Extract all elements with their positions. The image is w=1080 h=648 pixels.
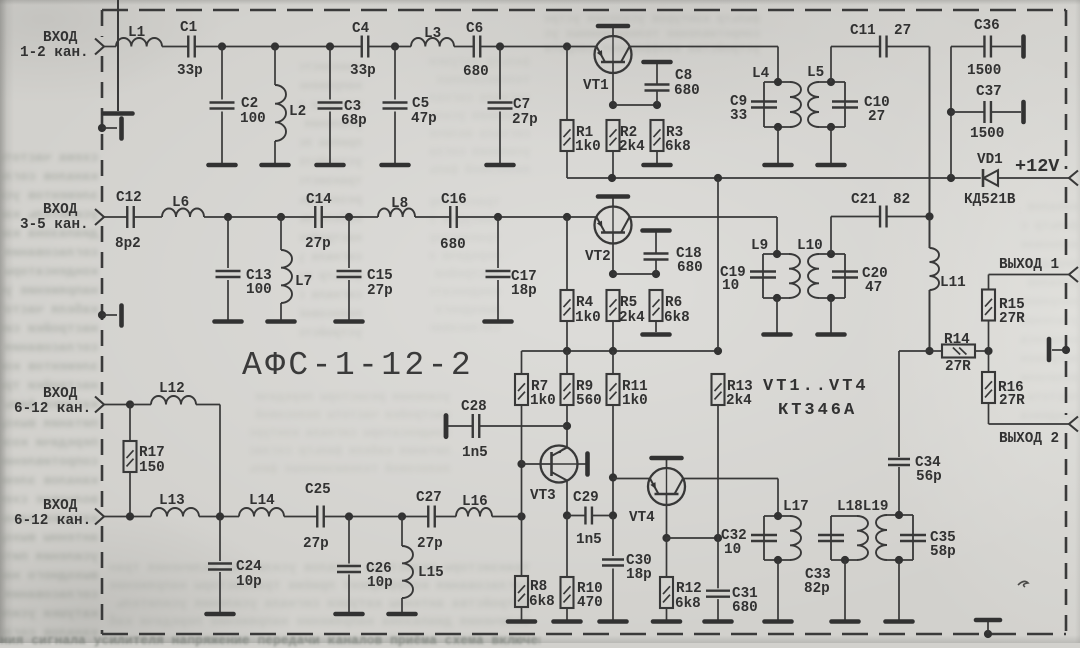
wire C37: [951, 111, 984, 113]
svg-text:КТ346А: КТ346А: [778, 401, 857, 420]
node L18 bottom: [841, 556, 849, 564]
capacitor C30: [602, 558, 624, 560]
wire: [199, 516, 239, 518]
wire R7 lower: [521, 405, 523, 464]
wire C24 upper: [219, 517, 221, 562]
capacitor C28: [472, 414, 474, 438]
node C2 top: [218, 42, 226, 50]
capacitor C34: [888, 458, 910, 460]
ground C30: [600, 619, 627, 624]
wire C28 right: [479, 425, 567, 427]
node VT4 base: [662, 534, 670, 542]
svg-text:10: 10: [722, 278, 739, 294]
capacitor C27: [427, 506, 429, 528]
svg-text:L15: L15: [418, 565, 444, 581]
inductor L6: [162, 209, 204, 218]
wire to L4: [777, 47, 779, 83]
wire bus1 C6-VT1: [480, 46, 596, 48]
wire R6 lower: [655, 321, 657, 332]
resistor R6: [650, 290, 663, 321]
svg-text:680: 680: [732, 600, 758, 616]
svg-text:10p: 10p: [236, 574, 262, 590]
resistor R3: [651, 120, 664, 151]
ground: [832, 619, 859, 624]
svg-text:27R: 27R: [999, 311, 1025, 327]
svg-text:L12: L12: [159, 381, 185, 397]
svg-text:L7: L7: [295, 274, 312, 290]
node VT2 base: [609, 270, 617, 278]
wire: [831, 46, 880, 48]
wire +12V branch vertical: [717, 178, 719, 351]
node L19 top: [895, 511, 903, 519]
node R14 left: [925, 347, 933, 355]
wire C13 upper: [227, 217, 229, 268]
transistor VT2: [595, 207, 632, 244]
inductor L16: [456, 508, 492, 517]
wire: [831, 216, 880, 218]
wire R4 lower: [566, 321, 568, 351]
resistor R9: [561, 374, 574, 405]
wire R8 upper: [521, 517, 523, 577]
ground R6: [643, 332, 670, 337]
inductor L19 tank: [887, 514, 913, 516]
node C15 top: [345, 213, 353, 221]
transistor VT4: [648, 468, 685, 505]
svg-text:56p: 56p: [916, 469, 942, 485]
node L9 top: [773, 250, 781, 258]
transistor VT1: [595, 36, 632, 73]
svg-text:82p: 82p: [804, 581, 830, 597]
wire combiner vertical upper: [929, 47, 931, 217]
wire R7 upper: [521, 351, 523, 374]
wire C34 upper: [898, 351, 900, 457]
capacitor C33: [818, 534, 844, 536]
wire: [104, 46, 116, 48]
shield node bottom: [984, 630, 992, 638]
wire R10 lower: [566, 608, 568, 620]
wire L17 ground: [777, 560, 779, 620]
capacitor C26: [337, 565, 361, 567]
resistor R15: [982, 290, 995, 321]
node R2 on rail: [608, 174, 616, 182]
dashed screen border left: [101, 10, 104, 37]
wire C17 upper: [497, 217, 499, 268]
wire C30 lower: [612, 569, 614, 621]
node R1/emitter: [563, 42, 571, 50]
wire C26 lower: [348, 575, 350, 613]
wire R12 lower: [666, 608, 668, 620]
terminal output 1: [1069, 267, 1078, 282]
svg-text:L18L19: L18L19: [837, 499, 888, 515]
ground: [207, 612, 234, 617]
svg-text:R6: R6: [665, 295, 682, 311]
inductor L8: [378, 209, 415, 218]
node R13 rail: [714, 347, 722, 355]
svg-text:VT1: VT1: [583, 78, 609, 94]
svg-text:R12: R12: [676, 581, 702, 597]
node C17 top: [494, 213, 502, 221]
wire C7 upper: [499, 47, 501, 100]
wire C15 upper: [348, 217, 350, 268]
wire L7 lower: [280, 303, 282, 320]
wire: [435, 516, 456, 518]
ground: [268, 319, 295, 324]
wire R12 upper: [666, 538, 668, 577]
node combiner C21: [925, 212, 933, 220]
wire L19 ground: [898, 560, 900, 620]
node C26: [345, 512, 353, 520]
node L17 top: [774, 512, 782, 520]
ground C8 top: [644, 60, 671, 65]
wire: [368, 46, 411, 48]
svg-text:680: 680: [674, 83, 700, 99]
node C3 top: [326, 42, 334, 50]
node VT3 base lower: [517, 512, 525, 520]
svg-text:VT1..VT4: VT1..VT4: [763, 377, 869, 396]
capacitor C32: [751, 534, 777, 536]
resistor R5: [607, 290, 620, 321]
wire C13 lower: [227, 280, 229, 320]
svg-text:680: 680: [677, 260, 703, 276]
ground: [818, 332, 845, 337]
svg-text:68p: 68p: [341, 113, 367, 129]
wire C3 lower: [329, 112, 331, 164]
artifact ground bar: [104, 111, 133, 116]
inductor L2: [275, 85, 286, 141]
wire bus3: [324, 516, 428, 518]
svg-text:6k8: 6k8: [664, 310, 690, 326]
svg-text:C5: C5: [412, 96, 429, 112]
node L15: [398, 512, 406, 520]
wire to L9: [776, 217, 778, 254]
wire: [987, 622, 989, 634]
capacitor C6: [473, 36, 475, 58]
svg-text:R5: R5: [620, 295, 637, 311]
svg-text:6k8: 6k8: [675, 596, 701, 612]
svg-text:R17: R17: [139, 445, 165, 461]
capacitor C4: [361, 36, 363, 58]
ground: [209, 163, 236, 168]
svg-text:680: 680: [440, 237, 466, 253]
ground: [215, 319, 242, 324]
wire: [134, 216, 162, 218]
ground bar C37: [1021, 102, 1026, 122]
svg-text:1k0: 1k0: [530, 393, 556, 409]
wire C2 lower: [221, 112, 223, 164]
svg-text:ВХОД: ВХОД: [43, 202, 78, 218]
resistor R7: [515, 374, 528, 405]
svg-text:27p: 27p: [512, 112, 538, 128]
shield ground bar 3: [1047, 339, 1052, 360]
node R15/R16: [984, 347, 992, 355]
svg-text:ВЫХОД 1: ВЫХОД 1: [999, 257, 1059, 273]
svg-text:680: 680: [463, 64, 489, 80]
svg-text:47p: 47p: [411, 111, 437, 127]
svg-text:L6: L6: [172, 195, 189, 211]
svg-text:27R: 27R: [999, 393, 1025, 409]
wire C2 upper: [221, 47, 223, 100]
wire: [284, 516, 317, 518]
wire: [492, 516, 522, 518]
node L10 top: [827, 250, 835, 258]
ground: [765, 163, 792, 168]
node C36 branch on rail: [947, 174, 955, 182]
wire R9 lower: [566, 405, 568, 448]
svg-text:150: 150: [139, 460, 165, 476]
inductor L12: [151, 396, 196, 405]
wire R15 upper: [988, 275, 990, 290]
node L5 top: [827, 78, 835, 86]
wire to L17: [777, 479, 779, 517]
svg-text:33p: 33p: [350, 63, 376, 79]
shield ground bar 2: [119, 306, 124, 326]
svg-text:C7: C7: [513, 97, 530, 113]
capacitor C24: [208, 562, 232, 564]
ground: [487, 163, 514, 168]
shield ground bar 1: [119, 119, 124, 139]
node VT3 collector: [563, 511, 571, 519]
terminal output 2: [1069, 417, 1078, 432]
wire R15 lower: [988, 321, 990, 352]
inductor L5 tank: [819, 81, 845, 83]
svg-text:C36: C36: [974, 18, 1000, 34]
svg-text:33p: 33p: [177, 63, 203, 79]
input terminal 6-12 a: [95, 397, 104, 413]
capacitor C16: [449, 206, 451, 228]
wire combiner: [929, 217, 931, 249]
svg-text:2k4: 2k4: [619, 310, 645, 326]
svg-text:C1: C1: [180, 20, 197, 36]
svg-text:27: 27: [868, 109, 885, 125]
wire combiner lower: [929, 290, 931, 351]
wire L5 top: [830, 47, 832, 83]
wire R11 upper: [612, 351, 614, 374]
wire: [104, 216, 127, 218]
svg-text:C8: C8: [675, 68, 692, 84]
wire C31 lower: [717, 599, 719, 620]
capacitor C35: [900, 534, 926, 536]
svg-text:L5: L5: [807, 65, 824, 81]
wire: [322, 216, 378, 218]
wire C29 right: [592, 515, 613, 517]
wire VT3 base vertical: [521, 464, 523, 517]
svg-text:3-5 кан.: 3-5 кан.: [20, 217, 89, 233]
ground R8: [508, 619, 535, 624]
svg-text:27R: 27R: [945, 359, 971, 375]
svg-text:L9: L9: [751, 238, 768, 254]
svg-text:1-2 кан.: 1-2 кан.: [20, 45, 89, 61]
capacitor C21: [879, 206, 881, 228]
wire R1 lower: [566, 151, 568, 178]
inductor L11: [930, 248, 940, 290]
shield node row1: [98, 124, 106, 132]
wire R13 lower: [717, 405, 719, 538]
svg-text:L4: L4: [752, 66, 770, 82]
svg-text:L14: L14: [249, 493, 275, 509]
ground: [389, 612, 416, 617]
svg-text:6-12 кан.: 6-12 кан.: [14, 401, 91, 417]
shield node right: [1062, 346, 1070, 354]
inductor L9 tank: [763, 253, 789, 255]
capacitor C17: [486, 270, 511, 272]
wire output 2: [989, 423, 1070, 425]
node L17 bottom: [774, 556, 782, 564]
capacitor C5: [383, 101, 408, 103]
wire C18 lower: [655, 260, 657, 274]
capacitor C20: [832, 270, 858, 272]
svg-text:L17: L17: [783, 499, 809, 515]
svg-text:82: 82: [893, 192, 910, 208]
inductor L1: [116, 38, 162, 47]
wire C29 left: [567, 515, 585, 517]
resistor R13: [712, 374, 725, 405]
wire C8 lower: [656, 91, 658, 106]
svg-text:27p: 27p: [367, 283, 393, 299]
svg-text:C14: C14: [306, 192, 332, 208]
svg-text:C2: C2: [241, 96, 258, 112]
svg-text:C25: C25: [305, 482, 331, 498]
resistor R16: [982, 372, 995, 403]
wire L10 ground: [830, 298, 832, 333]
node L19 bottom: [895, 556, 903, 564]
svg-text:C29: C29: [573, 490, 599, 506]
node L4 bottom: [774, 123, 782, 131]
wire L5 ground: [830, 127, 832, 163]
wire base-C8: [613, 104, 657, 106]
wire output 1: [989, 274, 1070, 276]
wire L12 down: [219, 405, 221, 517]
node C24: [216, 512, 224, 520]
wire: [104, 516, 151, 518]
svg-text:ВЫХОД 2: ВЫХОД 2: [999, 431, 1059, 447]
capacitor C13: [216, 270, 241, 272]
svg-text:C21: C21: [851, 192, 877, 208]
svg-text:47: 47: [865, 280, 882, 296]
wire C24 lower: [219, 572, 221, 612]
node rail to R13 branch: [714, 174, 722, 182]
node C29/C30: [609, 511, 617, 519]
svg-text:1k0: 1k0: [575, 139, 601, 155]
dashed screen border right: [1065, 10, 1068, 169]
svg-text:27p: 27p: [303, 536, 329, 552]
node C5 top: [391, 42, 399, 50]
wire C15 lower: [348, 280, 350, 320]
resistor R8: [515, 576, 528, 607]
wire +12V rail 2: [522, 350, 719, 352]
ground R10: [554, 619, 581, 624]
wire C17 lower: [497, 280, 499, 320]
wire VT4 emitter: [613, 478, 650, 480]
wire R3 lower: [656, 151, 658, 163]
wire VT3 base lead: [522, 463, 552, 465]
wire: [991, 46, 1021, 48]
svg-text:C15: C15: [367, 268, 393, 284]
node C13 top: [224, 213, 232, 221]
svg-text:C6: C6: [466, 21, 483, 37]
capacitor C25: [316, 506, 318, 528]
ground C31: [705, 619, 732, 624]
wire R17 lower: [129, 472, 131, 517]
node VT4 emitter: [609, 473, 617, 481]
svg-text:560: 560: [576, 393, 602, 409]
node C18/R6: [652, 270, 660, 278]
svg-text:1k0: 1k0: [575, 310, 601, 326]
wire C3 upper: [329, 47, 331, 100]
wire: [102, 314, 117, 316]
capacitor C19: [750, 270, 776, 272]
svg-text:C28: C28: [461, 399, 487, 415]
ground: [336, 319, 363, 324]
wire: [975, 350, 989, 352]
wire R16 lower: [988, 403, 990, 424]
wire: [991, 111, 1021, 113]
capacitor C1: [187, 36, 189, 58]
svg-text:АФС-1-12-2: АФС-1-12-2: [242, 347, 474, 384]
capacitor C37: [983, 101, 985, 123]
inductor L3: [411, 38, 454, 47]
svg-text:ВХОД: ВХОД: [43, 30, 78, 46]
svg-text:L11: L11: [940, 275, 966, 291]
resistor R10: [561, 577, 574, 608]
inductor L14: [239, 508, 284, 517]
svg-text:6k8: 6k8: [529, 594, 555, 610]
node R4/R9 rail: [563, 347, 571, 355]
wire R1 upper: [566, 47, 568, 121]
resistor R12: [660, 577, 673, 608]
capacitor C31: [706, 590, 730, 592]
capacitor C14: [314, 206, 316, 228]
shield ground bar 4: [976, 618, 1000, 623]
svg-text:100: 100: [246, 282, 272, 298]
wire R16 upper: [988, 351, 990, 372]
wire VT4 collector: [683, 478, 778, 480]
svg-text:2k4: 2k4: [726, 393, 752, 409]
svg-text:VD1: VD1: [977, 152, 1003, 168]
inductor L4 tank: [764, 81, 790, 83]
inductor L18 tank: [831, 515, 857, 517]
svg-text:VT2: VT2: [585, 249, 611, 265]
svg-text:VT3: VT3: [530, 488, 556, 504]
svg-text:18p: 18p: [626, 567, 652, 583]
node R5/R11 rail: [609, 347, 617, 355]
ground bar C28b: [444, 416, 449, 437]
wire bus2 C16-VT2: [457, 216, 597, 218]
wire: [1052, 349, 1066, 351]
node C7 top: [496, 42, 504, 50]
capacitor C8: [645, 83, 670, 85]
capacitor C12: [126, 206, 128, 228]
svg-text:L2: L2: [289, 104, 306, 120]
svg-text:2k4: 2k4: [619, 139, 645, 155]
resistor R2: [607, 120, 620, 151]
capacitor C18: [644, 252, 669, 254]
svg-text:1k0: 1k0: [622, 393, 648, 409]
wire base-C18: [613, 273, 656, 275]
input terminal 6-12 b: [95, 509, 104, 525]
svg-text:L16: L16: [462, 494, 488, 510]
resistor R1: [561, 120, 574, 151]
wire VT1 collector: [630, 46, 779, 48]
wire R17 upper: [129, 405, 131, 442]
wire C31 upper: [717, 538, 719, 588]
ground: [317, 163, 344, 168]
resistor R4: [561, 290, 574, 321]
svg-text:58p: 58p: [930, 544, 956, 560]
inductor L17 tank: [764, 515, 790, 517]
svg-text:10: 10: [724, 542, 741, 558]
wire: [454, 46, 474, 48]
input terminal 1-2: [95, 39, 104, 55]
